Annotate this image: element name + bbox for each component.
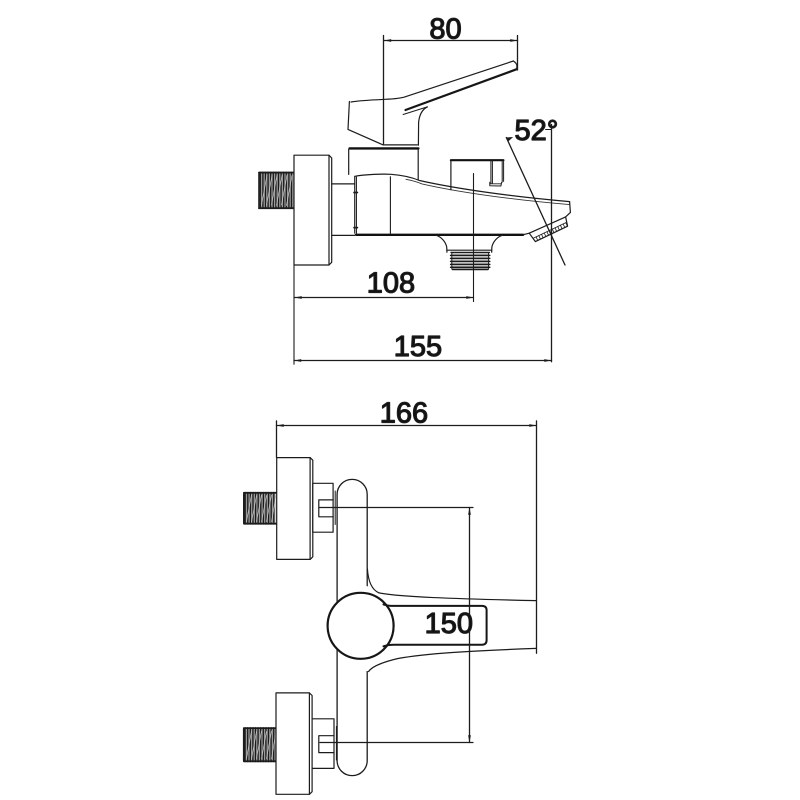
dimension 155 <box>294 359 552 362</box>
lower connection nut (front view) <box>312 719 336 769</box>
dimension 108 <box>295 296 474 299</box>
svg-text:166: 166 <box>380 397 428 429</box>
spout tip and bevel (side view) <box>523 202 570 242</box>
svg-text:108: 108 <box>367 267 415 299</box>
spout shoulder and top edge (side view) <box>355 174 570 201</box>
wall flange (side view) <box>294 155 332 265</box>
valve body bottom edge (side view) <box>356 234 523 236</box>
handle neck (side view) <box>418 107 427 145</box>
handle inner contour (front view) <box>384 604 487 646</box>
centerline through diverter and shower outlet (side view) <box>473 174 475 302</box>
svg-text:52°: 52° <box>515 115 559 147</box>
body capsule (front view) <box>337 479 367 775</box>
handle knob disc (front view) <box>328 593 394 659</box>
handle base (side view) <box>348 102 417 145</box>
lower inlet centerline (front view) <box>320 742 473 744</box>
spout top edge inner highlight (side view) <box>406 179 569 204</box>
diverter knob (side view) <box>451 160 504 190</box>
handle lever bottom edge (front view) <box>369 648 537 671</box>
upper wall flange (front view) <box>277 458 313 560</box>
handle lever top edge (front view) <box>367 569 536 601</box>
handle lever tip face (side view) <box>513 61 517 69</box>
cartridge cap (side view) <box>349 148 419 180</box>
inlet connection cylinder (side view) <box>332 184 355 236</box>
lower wall flange (front view) <box>276 693 312 794</box>
handle lever top edge (side view) <box>351 61 513 102</box>
dimension 150 <box>468 508 471 743</box>
lower threaded inlet (front view) <box>244 728 276 762</box>
handle lever crease thick edge (side view) <box>406 69 517 110</box>
dimension 166 <box>277 421 537 653</box>
shower outlet thread (side view) <box>451 252 490 269</box>
shower outlet bell (side view) <box>436 235 503 252</box>
svg-text:150: 150 <box>425 608 473 640</box>
extension line from flange (side view) <box>293 266 295 365</box>
valve union double edge (side view) <box>354 177 390 234</box>
handle lever lower short edge (side view) <box>403 107 427 115</box>
upper inlet centerline (front view) <box>319 507 473 509</box>
handle lever fill (front view) <box>366 586 536 671</box>
dimension 52 deg <box>506 125 565 362</box>
aerator shading (side view) <box>534 223 568 241</box>
upper connection nut (front view) <box>313 483 335 532</box>
upper threaded inlet (front view) <box>244 493 277 525</box>
dimension 80 <box>384 36 518 145</box>
threaded wall inlet (side view) <box>259 172 294 208</box>
svg-text:155: 155 <box>394 331 442 363</box>
svg-text:80: 80 <box>429 14 461 46</box>
